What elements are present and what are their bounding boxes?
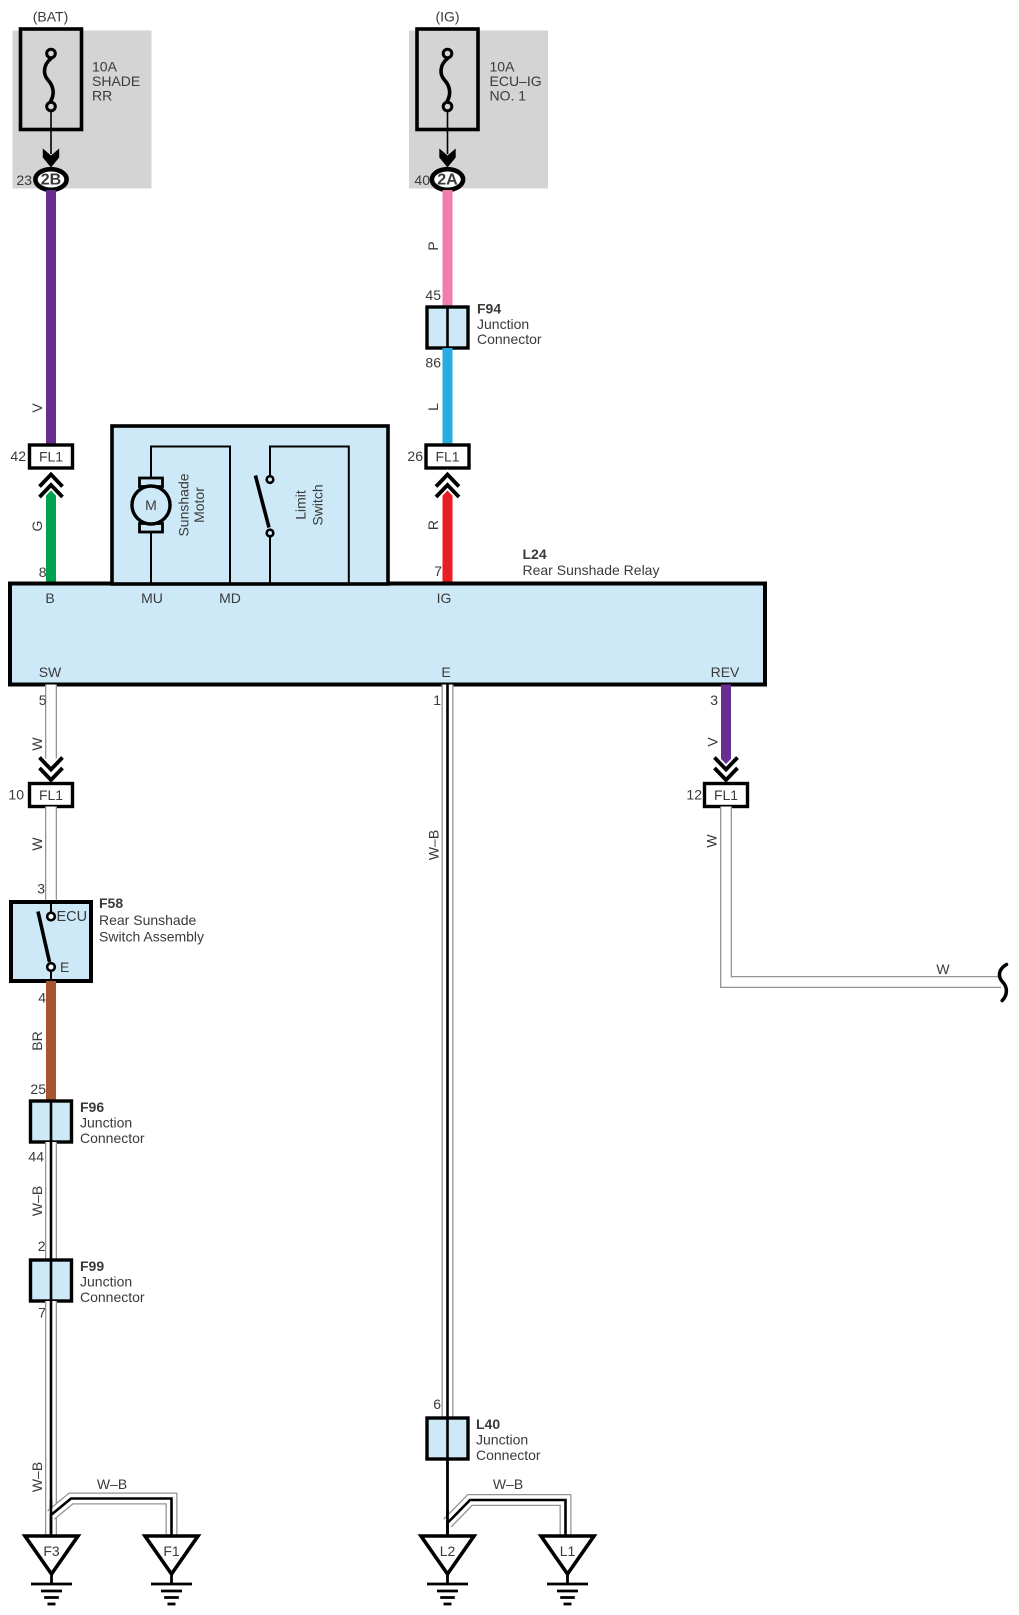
svg-text:Sunshade: Sunshade bbox=[176, 473, 192, 536]
svg-text:Rear Sunshade: Rear Sunshade bbox=[99, 912, 197, 928]
wire V purple from 2B to FL1 bbox=[10, 190, 56, 464]
svg-text:4: 4 bbox=[38, 990, 46, 1006]
chevron pair down above FL1 pin 12 bbox=[715, 758, 738, 787]
ground F1 bbox=[145, 1536, 198, 1604]
wire W white from FL1 to F58 bbox=[29, 807, 51, 903]
svg-text:8: 8 bbox=[39, 564, 47, 580]
svg-text:44: 44 bbox=[28, 1149, 44, 1165]
fuse 10A SHADE RR (BAT) bbox=[13, 9, 152, 190]
svg-text:BR: BR bbox=[29, 1031, 45, 1050]
ground F3 bbox=[25, 1536, 78, 1604]
svg-text:Junction: Junction bbox=[80, 1274, 132, 1290]
svg-text:REV: REV bbox=[711, 664, 740, 680]
svg-text:F3: F3 bbox=[43, 1543, 60, 1559]
svg-text:MD: MD bbox=[219, 590, 241, 606]
junction connector F96 bbox=[31, 1099, 145, 1146]
svg-text:ECU: ECU bbox=[57, 909, 88, 925]
svg-text:Connector: Connector bbox=[477, 331, 542, 347]
svg-text:Switch Assembly: Switch Assembly bbox=[99, 929, 204, 945]
switch assembly F58 Rear Sunshade Switch Assembly bbox=[11, 895, 204, 981]
svg-text:25: 25 bbox=[30, 1081, 46, 1097]
wire V purple from relay REV bbox=[705, 685, 732, 769]
svg-text:V: V bbox=[29, 403, 45, 413]
svg-text:G: G bbox=[29, 521, 45, 532]
ground L2 bbox=[421, 1536, 474, 1604]
junction connector F99 bbox=[31, 1258, 145, 1321]
svg-text:Connector: Connector bbox=[80, 1289, 145, 1305]
svg-text:Junction: Junction bbox=[477, 316, 529, 332]
chevron pair above R wire bbox=[436, 468, 459, 498]
svg-text:W–B: W–B bbox=[29, 1462, 45, 1492]
svg-text:L: L bbox=[425, 403, 441, 411]
junction connector F94 bbox=[425, 301, 542, 371]
wire W-B branch to ground F1 bbox=[51, 1476, 172, 1536]
wire internal motor leads MU MD bbox=[151, 447, 230, 585]
svg-text:Motor: Motor bbox=[191, 487, 207, 523]
connector FL1 pin 12 bbox=[686, 784, 747, 807]
wire W white from relay SW to FL1 bbox=[29, 685, 51, 762]
svg-text:SW: SW bbox=[39, 664, 62, 680]
svg-text:L1: L1 bbox=[560, 1543, 576, 1559]
svg-text:3: 3 bbox=[710, 692, 718, 708]
wire lead to ECU terminal bbox=[50, 902, 52, 913]
svg-text:7: 7 bbox=[434, 563, 442, 579]
svg-text:26: 26 bbox=[407, 448, 423, 464]
svg-text:L2: L2 bbox=[440, 1543, 456, 1559]
motor M sunshade motor bbox=[132, 473, 207, 536]
svg-text:2: 2 bbox=[38, 1238, 46, 1254]
svg-text:Connector: Connector bbox=[80, 1130, 145, 1146]
svg-text:(BAT): (BAT) bbox=[33, 9, 69, 25]
junction connector L40 bbox=[427, 1416, 541, 1463]
wire from L40 to ground L2 bbox=[446, 1459, 449, 1536]
wire W white from FL1 to right edge bbox=[704, 807, 1002, 983]
svg-text:F99: F99 bbox=[80, 1258, 104, 1274]
svg-text:Connector: Connector bbox=[476, 1447, 541, 1463]
svg-text:P: P bbox=[425, 241, 441, 250]
relay pin names bbox=[39, 590, 740, 680]
svg-text:F58: F58 bbox=[99, 895, 123, 911]
connector FL1 pin 26 bbox=[426, 445, 469, 468]
svg-text:F94: F94 bbox=[477, 301, 501, 317]
svg-text:M: M bbox=[145, 497, 157, 513]
svg-text:2A: 2A bbox=[437, 172, 458, 189]
svg-text:12: 12 bbox=[686, 787, 702, 803]
svg-text:Junction: Junction bbox=[80, 1115, 132, 1131]
svg-text:Rear Sunshade Relay: Rear Sunshade Relay bbox=[523, 562, 660, 578]
svg-text:2B: 2B bbox=[41, 172, 61, 189]
svg-text:V: V bbox=[705, 737, 721, 747]
svg-text:Limit: Limit bbox=[293, 490, 309, 520]
switch blade bbox=[38, 912, 50, 963]
continuation squiggle bbox=[999, 965, 1006, 1001]
svg-text:F96: F96 bbox=[80, 1099, 104, 1115]
wire W-B from F96 to F99 bbox=[28, 1142, 51, 1260]
svg-text:L40: L40 bbox=[476, 1416, 500, 1432]
svg-text:NO. 1: NO. 1 bbox=[490, 88, 527, 104]
svg-text:W: W bbox=[936, 961, 950, 977]
svg-text:86: 86 bbox=[425, 355, 441, 371]
svg-text:IG: IG bbox=[437, 590, 452, 606]
svg-text:W–B: W–B bbox=[426, 830, 442, 860]
wire W-B from relay E to L40 bbox=[426, 685, 448, 1419]
wire BR brown from F58 to F96 bbox=[29, 981, 56, 1101]
svg-text:W: W bbox=[29, 837, 45, 851]
wire W-B from F99 to ground F3 bbox=[29, 1301, 51, 1536]
chevron pair above G wire bbox=[40, 468, 63, 498]
svg-text:45: 45 bbox=[425, 287, 441, 303]
svg-text:W: W bbox=[704, 834, 720, 848]
svg-text:W–B: W–B bbox=[29, 1186, 45, 1216]
wire P pink from 2A to F94 bbox=[425, 190, 453, 307]
svg-text:W–B: W–B bbox=[97, 1476, 127, 1492]
fuse 10A ECU-IG NO.1 (IG) bbox=[409, 9, 548, 190]
terminal E bbox=[47, 963, 55, 971]
wire R red from FL1 to relay pin IG bbox=[425, 487, 453, 584]
svg-text:10: 10 bbox=[8, 787, 24, 803]
svg-text:W–B: W–B bbox=[493, 1476, 523, 1492]
svg-text:Junction: Junction bbox=[476, 1432, 528, 1448]
svg-text:Switch: Switch bbox=[310, 484, 326, 525]
wire L blue from F94 to FL1 bbox=[407, 348, 452, 464]
svg-text:40: 40 bbox=[414, 172, 430, 188]
relay L24 Rear Sunshade Relay bbox=[10, 546, 765, 685]
svg-text:R: R bbox=[425, 520, 441, 530]
svg-text:6: 6 bbox=[433, 1396, 441, 1412]
motor sub-box of relay bbox=[112, 426, 388, 584]
svg-text:23: 23 bbox=[16, 172, 32, 188]
connector FL1 pin 10 bbox=[8, 784, 72, 807]
svg-text:5: 5 bbox=[39, 692, 47, 708]
svg-text:W: W bbox=[29, 737, 45, 751]
svg-text:42: 42 bbox=[10, 448, 26, 464]
svg-text:1: 1 bbox=[433, 692, 441, 708]
terminal ECU bbox=[47, 913, 55, 921]
svg-text:F1: F1 bbox=[163, 1543, 180, 1559]
connector FL1 pin 42 bbox=[30, 445, 73, 468]
svg-text:(IG): (IG) bbox=[435, 9, 459, 25]
switch S1 limit switch bbox=[255, 447, 348, 585]
svg-text:E: E bbox=[441, 664, 450, 680]
svg-text:L24: L24 bbox=[523, 546, 547, 562]
wire W-B branch to ground L1 bbox=[448, 1476, 566, 1536]
svg-text:3: 3 bbox=[37, 881, 45, 897]
svg-text:MU: MU bbox=[141, 590, 163, 606]
svg-text:RR: RR bbox=[92, 88, 112, 104]
wire G green from FL1 to relay pin B bbox=[29, 487, 56, 584]
svg-text:B: B bbox=[45, 590, 54, 606]
chevron pair down above FL1 pin 10 bbox=[40, 758, 63, 787]
svg-text:E: E bbox=[60, 959, 69, 975]
ground L1 bbox=[541, 1536, 594, 1604]
wire lead from E terminal bbox=[50, 971, 52, 982]
